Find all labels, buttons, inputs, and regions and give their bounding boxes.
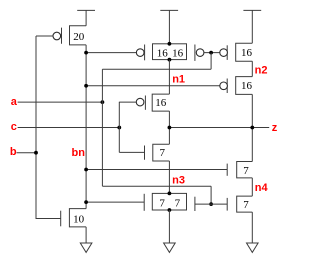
junction b [34,151,38,155]
svg-text:a: a [11,96,18,108]
wire bn to gate of pmos 16 lower right [86,85,220,87]
junction a gate wire [209,51,213,55]
wire nmos 10 to ground [85,227,87,243]
junction bn bottom [84,200,88,204]
svg-text:20: 20 [73,31,85,43]
wire bn to left gate of pmos pair [86,52,136,54]
wire c to gate of pmos 16 middle [119,101,136,103]
pmos transistor 16 top right (gate a) [220,43,253,61]
junction a gate wire lower [209,202,213,206]
svg-text:16: 16 [155,97,167,109]
node b input wire [17,152,37,154]
svg-text:7: 7 [159,197,165,209]
svg-text:16: 16 [157,48,169,60]
wire right gate of pair to pmos 16 top right gate [204,52,220,54]
wire nmos pair to ground [168,210,170,243]
svg-text:16: 16 [241,80,253,92]
node n4 wire [251,178,253,196]
wire bn vertical (inverter output) [85,45,87,209]
node n3 wire [168,161,170,193]
pmos transistor 16 middle (gate c) [136,94,169,111]
node n1 wire [168,60,170,95]
wire b vertical [36,36,61,219]
nmos transistor 7 upper right (gate bn) [227,162,252,178]
svg-text:bn: bn [72,147,86,159]
wire nmos 7 lower right to ground [251,212,253,243]
wire a vertical [101,69,103,186]
junction ground at nmos pair [168,208,172,212]
vdd rail symbol left [77,10,95,25]
svg-text:c: c [11,121,17,133]
ground symbol right [247,243,259,252]
wire a middle horizontal [102,185,211,187]
node a input wire [18,101,103,103]
svg-text:n4: n4 [255,182,269,194]
svg-text:10: 10 [73,213,85,225]
wire bn to left gate of nmos pair [86,201,144,203]
pmos transistor 20 (inverter pull-up, gate b) [53,26,86,45]
nmos transistor 7 middle (gate c) [145,144,170,161]
svg-text:16: 16 [241,47,253,59]
junction n1 at pmos pair [168,58,172,62]
junction bn top [84,51,88,55]
vdd rail symbol middle [160,10,178,43]
node z output wire [169,127,269,129]
junction n3 at nmos pair [168,192,172,196]
wire a riser to gate wire [210,53,212,70]
svg-text:7: 7 [175,197,181,209]
svg-text:n2: n2 [255,65,268,77]
svg-text:7: 7 [243,199,249,211]
svg-text:7: 7 [243,165,249,177]
svg-text:16: 16 [172,48,184,60]
nmos transistor 7 lower right (gate a) [227,196,252,212]
wire c vertical [118,102,120,153]
junction z middle [168,126,172,130]
wire a top horizontal [102,68,211,70]
svg-text:n1: n1 [172,73,185,85]
junction a [101,100,105,104]
wire a riser lower [210,186,212,204]
svg-text:z: z [272,122,278,134]
wire bn to gate of nmos 7 upper right [86,169,227,171]
junction bn mid [84,84,88,88]
junction bn lower [84,168,88,172]
wire pmos 16 lower right drain to z [251,94,253,161]
svg-text:7: 7 [160,147,166,159]
wire a to right gate of nmos pair and nmos 7 lower right [195,203,227,205]
wire c to gate of nmos 7 middle [119,151,144,153]
ground symbol middle [164,243,176,252]
junction z right [250,126,254,130]
wire pmos 16 middle drain to z [168,111,170,144]
wire gate of pmos 20 to b line [36,35,53,37]
svg-text:b: b [10,146,17,158]
nmos transistor 10 (inverter pull-down, gate b) [61,209,86,227]
pmos pair 16 16 (parallel pull-ups to n1) [136,44,204,61]
pmos transistor 16 lower right (gate bn) [220,77,253,95]
node c input wire [18,127,120,129]
nmos pair 7 7 (parallel pull-downs from n3) [144,193,195,211]
vdd rail symbol right [243,10,261,43]
ground symbol left [80,243,92,252]
junction vdd at pmos pair [168,42,172,46]
svg-text:n3: n3 [172,174,185,186]
junction c [117,126,121,130]
node n2 wire [251,61,253,76]
